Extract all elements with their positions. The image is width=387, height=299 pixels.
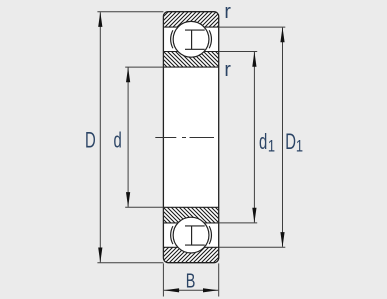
inner ring bottom section (hatched) xyxy=(163,207,218,223)
arrow B left xyxy=(164,288,179,292)
dimension line d xyxy=(127,68,129,207)
extension line D1 top xyxy=(219,26,286,28)
label D xyxy=(85,129,96,154)
dimension line d1 xyxy=(253,52,255,222)
inner ring shoulder line bottom xyxy=(163,222,218,224)
arrow d1 top xyxy=(252,52,256,67)
arrow d top xyxy=(126,67,130,82)
bearing outline xyxy=(163,12,218,263)
dimension line D xyxy=(99,12,101,262)
extension line D1 bottom xyxy=(219,246,286,248)
svg-text:D: D xyxy=(85,129,96,154)
outer ring top section (hatched) xyxy=(163,12,218,27)
outer ring bottom section (hatched) xyxy=(163,247,218,262)
arrow d bottom xyxy=(126,192,130,207)
arrow D1 bottom xyxy=(280,232,284,247)
extension line d1 bottom xyxy=(219,222,258,224)
ball bottom xyxy=(173,217,209,253)
inner ring top section (hatched) xyxy=(163,52,218,68)
bore line bottom xyxy=(163,206,218,208)
cage side arc right of bottom ball xyxy=(209,226,211,244)
svg-text:1: 1 xyxy=(268,138,275,156)
ball top xyxy=(173,21,209,57)
cage mark in top ball xyxy=(185,30,205,49)
arrow D1 top xyxy=(280,27,284,42)
label D1 xyxy=(285,130,296,155)
svg-text:d: d xyxy=(114,129,122,154)
inner ring shoulder line top xyxy=(163,51,218,53)
extension line B right xyxy=(218,263,220,296)
extension line B left xyxy=(162,263,164,296)
extension line D top xyxy=(97,11,163,13)
label d1 xyxy=(259,130,267,155)
dimension line D1 xyxy=(282,28,284,247)
cage side arc left of bottom ball xyxy=(171,226,173,244)
outer ring raceway line top xyxy=(163,26,218,28)
svg-text:d: d xyxy=(259,130,267,155)
svg-text:1: 1 xyxy=(296,138,303,156)
svg-text:r: r xyxy=(224,0,231,23)
arrow d1 bottom xyxy=(252,208,256,223)
extension line D bottom xyxy=(97,262,163,264)
cage mark in bottom ball xyxy=(185,226,205,245)
arrow D top xyxy=(98,12,102,27)
extension line d1 top xyxy=(219,51,258,53)
label r top xyxy=(224,0,231,23)
svg-text:r: r xyxy=(224,58,231,81)
arrow D bottom xyxy=(98,248,102,263)
cage side arc left of top ball xyxy=(171,30,173,48)
svg-text:B: B xyxy=(186,269,196,292)
label B xyxy=(186,269,196,292)
label d xyxy=(114,129,122,154)
extension line d bottom xyxy=(125,206,163,208)
svg-text:D: D xyxy=(285,130,296,155)
center line xyxy=(155,137,214,139)
cage side arc right of top ball xyxy=(209,30,211,48)
extension line d top xyxy=(125,66,163,68)
label r lower xyxy=(224,58,231,81)
outer ring raceway line bottom xyxy=(163,246,218,248)
bore line top xyxy=(163,66,218,68)
arrow B right xyxy=(203,288,218,292)
bearing body white silhouette xyxy=(163,12,218,263)
dimension line B xyxy=(164,289,218,291)
